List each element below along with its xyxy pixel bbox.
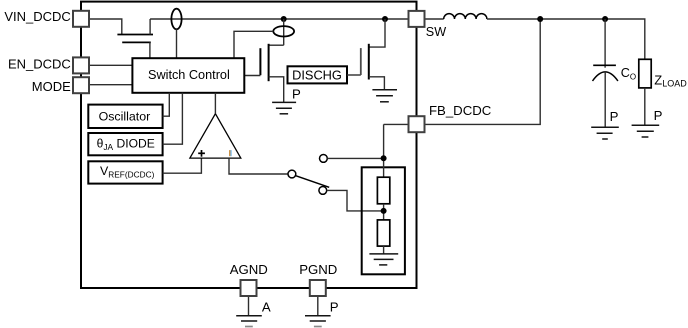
switch S1 common contact <box>288 170 296 178</box>
wire Q3 source to ground <box>369 77 385 90</box>
svg-text:P: P <box>330 300 339 315</box>
node dot FB-divider top <box>381 155 387 161</box>
wire Oscillator to Switch Control <box>163 93 170 116</box>
switch S1 lower contact <box>319 187 327 195</box>
transistor Q3 gate bar <box>360 48 362 75</box>
wire rail down to CS2 <box>283 19 285 45</box>
wire comparator minus input to switch S1 <box>229 158 288 174</box>
svg-text:Switch Control: Switch Control <box>148 68 230 82</box>
wire Q1 gate to Switch Control top <box>149 42 151 58</box>
transistor Q3 channel bar <box>368 44 370 80</box>
inductor L1 <box>444 14 487 19</box>
svg-text:P: P <box>292 86 301 101</box>
block Oscillator <box>88 105 162 128</box>
ground P below Q2 <box>272 102 296 113</box>
load ZLOAD resistor body <box>639 59 651 88</box>
resistor R1 <box>377 177 389 204</box>
pin SW <box>409 11 425 27</box>
block DISCHG <box>288 66 348 83</box>
wire FB node vertical through divider <box>383 124 385 177</box>
svg-text:VIN_DCDC: VIN_DCDC <box>4 9 70 24</box>
wire upper contact to FB node <box>327 157 383 159</box>
node dot output-FB <box>537 16 543 22</box>
capacitor Co top plate <box>593 64 616 66</box>
wire SW pin to inductor <box>425 18 444 20</box>
wire Co to ground <box>604 72 606 127</box>
svg-text:FB_DCDC: FB_DCDC <box>429 103 492 118</box>
wire output node to Co <box>604 19 606 68</box>
svg-text:P: P <box>610 109 619 124</box>
comparator plus mark <box>198 150 205 157</box>
feedback divider outline box <box>362 167 405 274</box>
wire rail down to Q3 drain <box>369 19 385 47</box>
wire PGND pin to ground <box>317 296 319 316</box>
current sensor CS1 ellipse <box>171 9 181 30</box>
wire AGND pin to ground <box>248 296 250 316</box>
wire lower contact to divider midpoint <box>327 190 384 211</box>
svg-text:Oscillator: Oscillator <box>99 110 151 124</box>
IC boundary box U1 <box>81 2 417 288</box>
node dot output-Co <box>602 16 608 22</box>
capacitor Co curved plate <box>593 72 618 81</box>
transistor Q1 gate bar <box>122 41 151 43</box>
wire Q2 source to ground <box>269 77 284 103</box>
svg-text:P: P <box>654 108 663 123</box>
block thetaJA DIODE <box>88 133 162 155</box>
comparator minus mark <box>229 150 230 156</box>
wire CS2 sense to Switch Control top <box>234 31 273 58</box>
wire EN_DCDC to Switch Control <box>89 64 132 66</box>
svg-text:AGND: AGND <box>230 262 268 277</box>
ground below Q3 <box>372 90 397 102</box>
svg-text:SW: SW <box>426 25 446 39</box>
node dot rail-Q2 <box>281 16 287 22</box>
wire R2 to ground <box>383 246 385 254</box>
svg-text:EN_DCDC: EN_DCDC <box>8 56 71 71</box>
ground inside divider box <box>369 254 398 265</box>
wire comparator output to Switch Control <box>214 93 216 114</box>
block Switch Control <box>132 58 244 93</box>
node dot rail-Q3 <box>382 16 388 22</box>
wire FB node to FB_DCDC pin <box>384 123 409 125</box>
wire CS2 to Q2 drain <box>269 44 284 46</box>
pin AGND <box>241 280 257 296</box>
wire R1 to R2 <box>383 204 385 220</box>
ground A below AGND <box>236 316 262 321</box>
wire inductor to load <box>487 19 645 59</box>
transistor Q2 gate bar <box>259 48 261 75</box>
pin MODE <box>73 77 89 93</box>
op-amp U2 comparator triangle <box>190 114 241 158</box>
wire CS1 sense to Switch Control top <box>176 29 178 58</box>
ground below ZLOAD <box>632 125 660 137</box>
pin VIN_DCDC <box>73 11 89 27</box>
wire VIN pin to Q1 source <box>89 19 122 35</box>
block VREF(DCDC) <box>88 161 162 183</box>
transistor Q1 channel bar <box>117 34 153 36</box>
switch S1 blade <box>295 176 329 188</box>
wire Switch Control to Q2 gate <box>244 75 260 77</box>
svg-text:A: A <box>262 300 271 315</box>
ground P below PGND <box>305 316 331 321</box>
wire FB_DCDC pin to output node <box>425 19 541 124</box>
pin PGND <box>310 280 326 296</box>
wire DISCHG to Q3 gate <box>347 74 361 76</box>
pin EN_DCDC <box>73 57 89 73</box>
svg-text:MODE: MODE <box>32 79 71 94</box>
wire VREF to comparator + input <box>163 158 202 173</box>
ground below Co <box>591 127 619 139</box>
svg-text:ZLOAD: ZLOAD <box>654 73 687 89</box>
pin FB_DCDC <box>409 116 425 132</box>
resistor R2 <box>377 220 389 246</box>
svg-text:DISCHG: DISCHG <box>292 67 342 82</box>
wire ZLOAD to ground <box>644 88 646 125</box>
svg-text:CO: CO <box>621 66 636 81</box>
transistor Q2 channel bar <box>268 44 270 81</box>
wire MODE to Switch Control <box>89 84 132 86</box>
switch S1 upper contact <box>320 155 328 163</box>
wire VIN rail to SW <box>150 18 408 20</box>
wire thetaJA DIODE to Switch Control <box>163 93 183 144</box>
wire Q1 drain up to rail <box>149 19 151 35</box>
svg-text:PGND: PGND <box>299 262 337 277</box>
node dot divider midpoint <box>381 208 387 214</box>
current sensor CS2 ellipse <box>273 26 294 36</box>
